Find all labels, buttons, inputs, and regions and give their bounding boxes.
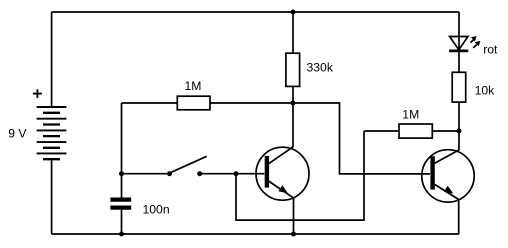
transistor Q1 base bar xyxy=(265,156,269,188)
transistor Q2 base bar xyxy=(430,156,434,189)
svg-text:9 V: 9 V xyxy=(8,127,27,141)
wire Q2 emitter down to bottom rail xyxy=(458,200,460,235)
wire 10k bottom to Q2 collector node xyxy=(458,102,460,150)
node Q2 collector junction xyxy=(457,128,462,133)
wire R3 right terminal to Q2 collector node xyxy=(432,130,459,132)
svg-text:1M: 1M xyxy=(185,79,202,93)
wire from node A down through Q1 collector column xyxy=(292,12,294,53)
LED D1 cathode bar xyxy=(449,50,468,53)
node A junction at 330k bottom xyxy=(291,101,296,106)
LED D1 emission arrow 1 xyxy=(471,36,477,43)
transistor Q1 emitter arm with arrow xyxy=(269,181,294,198)
svg-text:1M: 1M xyxy=(402,108,419,122)
wire left vertical from rail to battery xyxy=(51,12,53,107)
wire feedback: base node down, right, up to right 1M xyxy=(236,131,364,220)
LED D1 emission arrow 2 xyxy=(473,41,480,48)
node Q1 base / feedback junction xyxy=(234,171,239,176)
transistor Q1 body circle xyxy=(256,147,309,200)
transistor Q2 body circle xyxy=(422,150,474,202)
node switch left contact xyxy=(167,171,172,176)
node switch right contact xyxy=(197,171,202,176)
svg-text:330k: 330k xyxy=(307,61,334,75)
resistor R1 1M body xyxy=(177,96,210,110)
LED D1 triangle xyxy=(450,37,468,50)
wire battery bottom stub to bottom rail xyxy=(51,159,53,234)
wire top rail xyxy=(52,11,459,13)
wire cap node vertical up to 1M wire xyxy=(121,103,123,174)
transistor Q2 collector arm xyxy=(435,150,460,163)
wire horizontal to left 1M resistor xyxy=(122,102,178,104)
wire from R1 to node A xyxy=(210,102,293,104)
svg-text:rot: rot xyxy=(483,42,498,56)
battery B1 xyxy=(37,107,67,159)
wire feedback top to right 1M left terminal xyxy=(364,130,399,132)
svg-text:10k: 10k xyxy=(475,84,496,98)
capacitor C1 100n plates xyxy=(110,200,131,208)
wire Q1 emitter down to bottom rail xyxy=(293,198,295,234)
wire cap bottom lead xyxy=(121,210,123,234)
wire switch right contact to Q1 base xyxy=(200,173,265,175)
transistor Q2 emitter arm with arrow xyxy=(435,184,459,199)
transistor Q1 collector arm xyxy=(269,147,294,164)
wire bottom rail xyxy=(52,233,459,235)
wire node A to Q2 base branch: horizontal then vertical then to base xyxy=(293,103,430,174)
node Q1 emitter rail junction xyxy=(291,232,296,237)
node cap bottom rail junction xyxy=(119,232,124,237)
resistor R3 1M body (right) xyxy=(399,124,432,138)
resistor R4 10k body xyxy=(452,72,466,102)
wire right column: rail through LED to 10k xyxy=(458,12,460,72)
node cap top / switch junction xyxy=(119,171,124,176)
node top rail junction xyxy=(291,10,296,15)
svg-text:100n: 100n xyxy=(143,203,170,217)
switch S1 blade xyxy=(170,156,207,173)
resistor R2 330k body xyxy=(286,53,300,86)
switch S1 wire left segment xyxy=(122,173,170,175)
plus polarity symbol xyxy=(33,89,42,98)
wire cap top lead xyxy=(121,174,123,198)
wire from R2 bottom to Q1 collector xyxy=(292,86,294,147)
